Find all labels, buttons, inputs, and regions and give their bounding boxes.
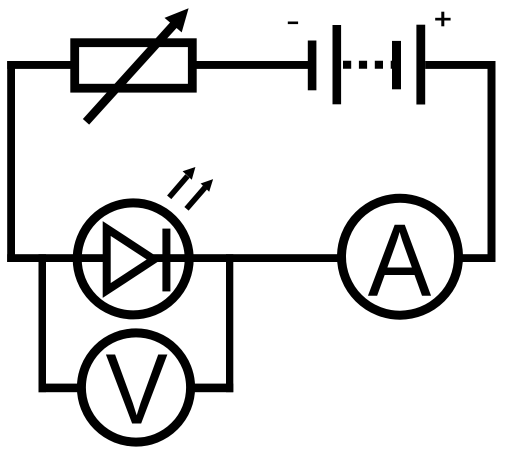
LED emission arrow 2 head xyxy=(201,179,214,192)
wire: voltmeter right branch vertical xyxy=(226,254,233,392)
voltmeter V circle xyxy=(81,333,190,442)
wire: top horizontal from left corner to battery negative terminal xyxy=(7,61,308,69)
wire: left vertical (top-left corner down to LED row) xyxy=(7,61,15,262)
battery cell plate 1 (short, negative) xyxy=(308,41,317,91)
resistor arrow shaft xyxy=(86,25,174,122)
ammeter A circle xyxy=(342,198,459,315)
svg-text:V: V xyxy=(105,333,168,446)
wire: middle horizontal from ammeter to right vertical wire xyxy=(455,254,496,262)
battery minus label xyxy=(288,22,298,25)
wire: voltmeter left branch vertical xyxy=(39,254,47,392)
svg-text:A: A xyxy=(368,203,432,319)
LED emission arrow 2 shaft xyxy=(187,188,206,209)
LED circle xyxy=(77,203,189,315)
LED diode triangle (anode) xyxy=(107,229,154,291)
wire: right vertical from top-right corner down to ammeter row xyxy=(488,61,496,262)
battery cell plate 4 (tall, positive) xyxy=(416,25,425,105)
LED emission arrow 1 head xyxy=(183,167,196,180)
LED emission arrow 1 shaft xyxy=(169,176,187,197)
battery cell plate 3 (short, negative) xyxy=(392,41,401,89)
battery dashed continuation xyxy=(343,61,392,69)
battery plus label xyxy=(435,12,450,27)
resistor R (variable rheostat body) xyxy=(75,43,193,88)
wire: voltmeter right stub to circle xyxy=(187,384,233,393)
wire: voltmeter left stub to circle xyxy=(39,384,85,393)
wire: top horizontal from battery positive terminal to right corner xyxy=(425,61,495,69)
battery cell plate 2 (tall, positive) xyxy=(333,25,342,104)
LED cathode bar xyxy=(162,229,170,292)
resistor arrow head xyxy=(165,8,189,32)
wire: middle horizontal from left wire through LED to ammeter xyxy=(7,254,345,262)
